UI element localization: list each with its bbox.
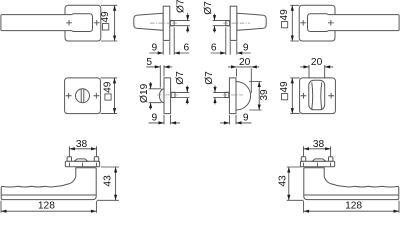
dim d7 row2-left: dim line [186,85,188,104]
svg-text:5: 5 [146,57,152,68]
svg-text:128: 128 [345,201,362,212]
svg-text:Ø7: Ø7 [175,71,186,85]
svg-text:9: 9 [151,113,157,124]
dim sq49 row1-right: square symbol [282,22,288,28]
screw post right a [301,157,305,162]
dim 20 side: arrows [231,65,257,68]
dim 5: arrows [155,65,170,68]
dim sq49 row1-left: dim line [114,5,116,41]
svg-text:Ø7: Ø7 [203,1,214,15]
screw post left a [67,157,71,162]
grip contour line left [1,194,96,196]
spindle stub left fig [170,21,174,26]
dim 5: dim line [146,66,172,68]
dim 43 right: arrows [287,167,290,200]
dim 38 left: ext lines [69,146,96,156]
svg-text:9: 9 [243,113,249,124]
dim 20 front: arrows [304,65,331,68]
dim 38 left: arrows [69,147,96,150]
svg-text:Ø7: Ø7 [175,0,186,13]
grip contour line right [304,194,399,196]
centerline row1 right [223,22,250,24]
dim d7 row1-left: arrows [186,15,189,31]
dim 20 side: dim line [228,66,259,68]
svg-text:49: 49 [279,81,290,93]
centerline row2 left [157,94,178,96]
dim 128 left: dim line [1,210,96,212]
thumbturn dome side [236,82,251,111]
dim 38 right: dim line [304,148,331,150]
dim 39: arrows [258,82,261,111]
screw cross right [94,20,100,26]
thumbturn front [309,80,325,110]
dim 39: dim line [258,82,260,111]
dim 43 left: ext lines [97,167,119,200]
dim 128 right: arrows [304,210,399,213]
dim sq49 row2-right: square symbol [282,94,288,100]
spindle stub right fig [226,21,230,26]
dim 9 row2-left: dim line [149,122,180,124]
svg-text:6: 6 [183,43,189,54]
rose right front [299,5,335,41]
dim 20 front: ext lines [309,65,325,78]
dims 6/9 row1-right: dim line [211,52,251,54]
screw cross right fig right [328,20,334,26]
dim 128 right: dim line [304,210,399,212]
dim 128 left: arrows [1,210,96,213]
dim 39: ext lines [249,82,261,111]
dim d7 row1-left: ext lines [175,21,190,26]
dim 20 front: dim line [300,66,333,68]
rose left row2 [65,78,101,114]
dim d7 row1-right: dim line [214,14,216,33]
release dome [159,89,164,103]
release slot [81,89,84,102]
dim d19: arrows [149,83,152,108]
rose plate side row2-left [164,78,171,114]
screw post left b [94,157,98,162]
dim 9 row2-right: arrows [224,121,242,124]
svg-text:49: 49 [100,11,111,23]
svg-text:49: 49 [279,9,290,21]
screw cross right fig left [300,20,306,26]
dim sq49 row1-right: arrows [291,5,294,41]
dims 6/9 row1-right: arrows [220,51,242,54]
rose plate side row2-right [229,78,236,114]
lever left front [1,14,93,32]
svg-text:Ø19: Ø19 [139,83,150,103]
svg-text:20: 20 [311,57,323,68]
dim d7 row2-right: arrows [213,87,216,103]
dims 9/6 row1-left: arrows [158,51,180,54]
dim sq49 row1-left: arrows [113,5,116,41]
dim 38 right: arrows [304,147,331,150]
rose right row2 [300,78,336,114]
dim 9 row2-left: ext lines [164,115,171,124]
svg-text:128: 128 [38,201,55,212]
dim 9 row2-right: ext lines [229,115,236,124]
dim d7 row2-left: ext lines [175,92,189,97]
dim sq49 row1-right: dim line [291,5,293,41]
dim 38 right: ext lines [304,146,331,156]
spindle bump right [312,159,325,161]
dim d7 row2-left: arrows [186,87,189,103]
rose plate side left [163,6,170,40]
rose plate top view left [65,161,99,167]
rose left front [65,5,101,41]
dim sq49 row1-left: square symbol [102,24,108,30]
dim sq49 row2-left: ext lines [101,78,118,114]
dim 43 right: dim line [288,167,290,200]
dim sq49 row2-left: arrows [113,78,116,114]
screw post right b [329,157,333,162]
spindle stub row2-right [225,92,229,97]
dim 20 side: ext lines [237,69,252,94]
dim 43 left: arrows [114,167,117,200]
dim d7 row2-right: dim line [214,85,216,104]
plate ticks left [69,163,96,167]
dim 43 left: dim line [115,167,117,200]
dim 128 right: ext lines [304,201,399,213]
plate ticks right [304,163,331,167]
dim sq49 row1-left: extension lines [101,5,117,41]
screw cross row2 right b [328,93,334,99]
centerline row2 right [223,94,244,96]
svg-text:6: 6 [211,43,217,54]
screw cross row2 right a [301,93,307,99]
dims 9/6 row1-left: dim line [149,52,189,54]
dim d7 row2-right: ext lines [213,92,225,97]
dim 38 left: dim line [69,148,96,150]
svg-text:38: 38 [313,139,325,150]
grip side left [134,13,163,30]
spindle bump left [74,159,87,161]
grip side right [237,13,266,30]
emergency release disc [76,89,90,103]
grip and neck top view right [304,168,399,200]
svg-text:20: 20 [239,57,251,68]
screw cross left [66,20,72,26]
screw cross row2 left a [66,93,72,99]
thumbturn front inner lines [312,82,322,109]
centerline row1 left [150,22,177,24]
dim d19: ext lines [149,89,162,103]
dim 9 row2-right: dim line [220,122,251,124]
svg-text:Ø7: Ø7 [204,71,215,85]
dim sq49 row2-right: dim line [291,78,293,114]
dim d19: dim line [150,82,152,110]
svg-text:38: 38 [76,139,88,150]
dim 43 right: ext lines [287,167,304,200]
svg-text:43: 43 [277,175,288,187]
spindle stub row2-left [171,92,175,97]
dim 128 left: ext lines [1,201,96,213]
rose plate side right [230,6,237,40]
svg-text:39: 39 [259,89,270,101]
dim sq49 row1-right: ext lines [290,5,299,41]
dim d7 row1-right: arrows [213,15,216,31]
dim d7 row1-right: ext lines [213,21,226,26]
svg-text:49: 49 [102,81,113,93]
svg-text:43: 43 [102,175,113,187]
dim 5: ext lines [160,65,164,87]
dim sq49 row2-left: dim line [114,78,116,114]
dims 6/9 row1-right: ext lines [226,27,237,54]
lever right front [308,14,400,32]
grip and neck top view left [1,168,96,200]
dim sq49 row2-right: arrows [291,78,294,114]
dim sq49 row2-right: ext lines [290,78,299,114]
svg-text:9: 9 [243,43,249,54]
dim d7 row1-left: dim line [187,13,189,33]
screw cross row2 left b [94,93,100,99]
dim sq49 row2-left: square symbol [105,94,111,100]
svg-text:9: 9 [151,43,157,54]
dims 9/6 row1-left: ext lines [163,27,174,54]
dim 9 row2-left: arrows [159,121,177,124]
rose plate top view right [300,161,334,167]
